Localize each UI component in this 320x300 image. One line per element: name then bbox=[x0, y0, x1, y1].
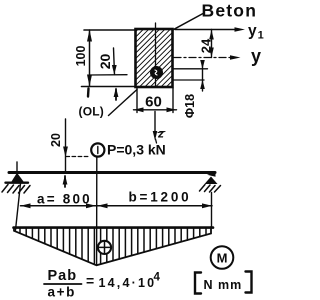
axis z (section) bbox=[153, 112, 165, 141]
svg-text:y: y bbox=[251, 46, 261, 66]
dimension phi18 extension lines bbox=[173, 69, 208, 80]
axis y (dash-dot) bbox=[174, 46, 261, 66]
moment diagram hatching bbox=[20, 229, 206, 265]
dimension 60 bbox=[134, 94, 177, 113]
dimension 100 bbox=[74, 30, 92, 97]
svg-text:20: 20 bbox=[97, 54, 113, 70]
dimension 20 (section) extension line at rebar level bbox=[89, 74, 127, 76]
svg-text:=: = bbox=[86, 273, 94, 289]
right extension line to b-dimension bbox=[211, 193, 213, 228]
svg-text:a= 800: a= 800 bbox=[37, 192, 92, 207]
tick above N bbox=[156, 139, 157, 143]
svg-text:24: 24 bbox=[199, 38, 214, 53]
svg-text:4: 4 bbox=[154, 272, 161, 284]
moment symbol circle M bbox=[211, 246, 234, 269]
svg-text:Beton: Beton bbox=[202, 1, 258, 21]
svg-text:M: M bbox=[217, 250, 228, 265]
(OL) leader line bbox=[109, 90, 138, 116]
Beton leader line bbox=[173, 14, 203, 30]
positive sign circle at peak bbox=[98, 241, 111, 254]
beam bbox=[9, 171, 215, 174]
svg-text:Pab: Pab bbox=[48, 268, 78, 284]
formula result = 14,4 . 10^4 bbox=[86, 272, 161, 291]
svg-text:Φ18: Φ18 bbox=[183, 94, 197, 118]
units [N mm] bbox=[195, 272, 252, 294]
svg-text:a+b: a+b bbox=[48, 285, 76, 300]
svg-text:20: 20 bbox=[49, 133, 63, 147]
svg-text:60: 60 bbox=[145, 94, 162, 111]
svg-text:N mm: N mm bbox=[204, 278, 243, 292]
dimension 20 (section) bbox=[97, 48, 118, 100]
svg-text:P=0,3 kN: P=0,3 kN bbox=[107, 142, 166, 158]
left support (pin) bbox=[2, 162, 30, 193]
dimension 100 extension lines bbox=[82, 30, 137, 87]
load point circle P bbox=[91, 143, 104, 156]
section centerline bbox=[155, 23, 157, 87]
svg-text:(OL): (OL) bbox=[79, 105, 104, 119]
concrete section outline bbox=[136, 29, 173, 87]
rebar (OL) circle bbox=[150, 66, 163, 79]
svg-text:100: 100 bbox=[74, 46, 88, 67]
svg-text:b=1200: b=1200 bbox=[129, 190, 192, 205]
axis y1 bbox=[175, 23, 264, 42]
right support bbox=[200, 172, 221, 192]
dimension 20 (beam) bbox=[49, 119, 68, 187]
svg-text:14,4·10: 14,4·10 bbox=[99, 276, 157, 290]
dimension 60 extension lines bbox=[137, 88, 173, 113]
formula fraction Pab over a+b bbox=[44, 268, 82, 300]
moment diagram baseline bbox=[14, 226, 214, 229]
dimension line a b bbox=[20, 203, 212, 208]
moment diagram triangle bbox=[14, 227, 211, 265]
dashed line P level bbox=[66, 156, 90, 158]
dimension phi18 line and arrows bbox=[200, 60, 205, 91]
dimension 24 between y1 and y bbox=[199, 30, 214, 58]
left extension line to a-dimension bbox=[16, 184, 21, 231]
svg-text:z: z bbox=[157, 127, 164, 141]
load line of action bbox=[96, 157, 98, 265]
